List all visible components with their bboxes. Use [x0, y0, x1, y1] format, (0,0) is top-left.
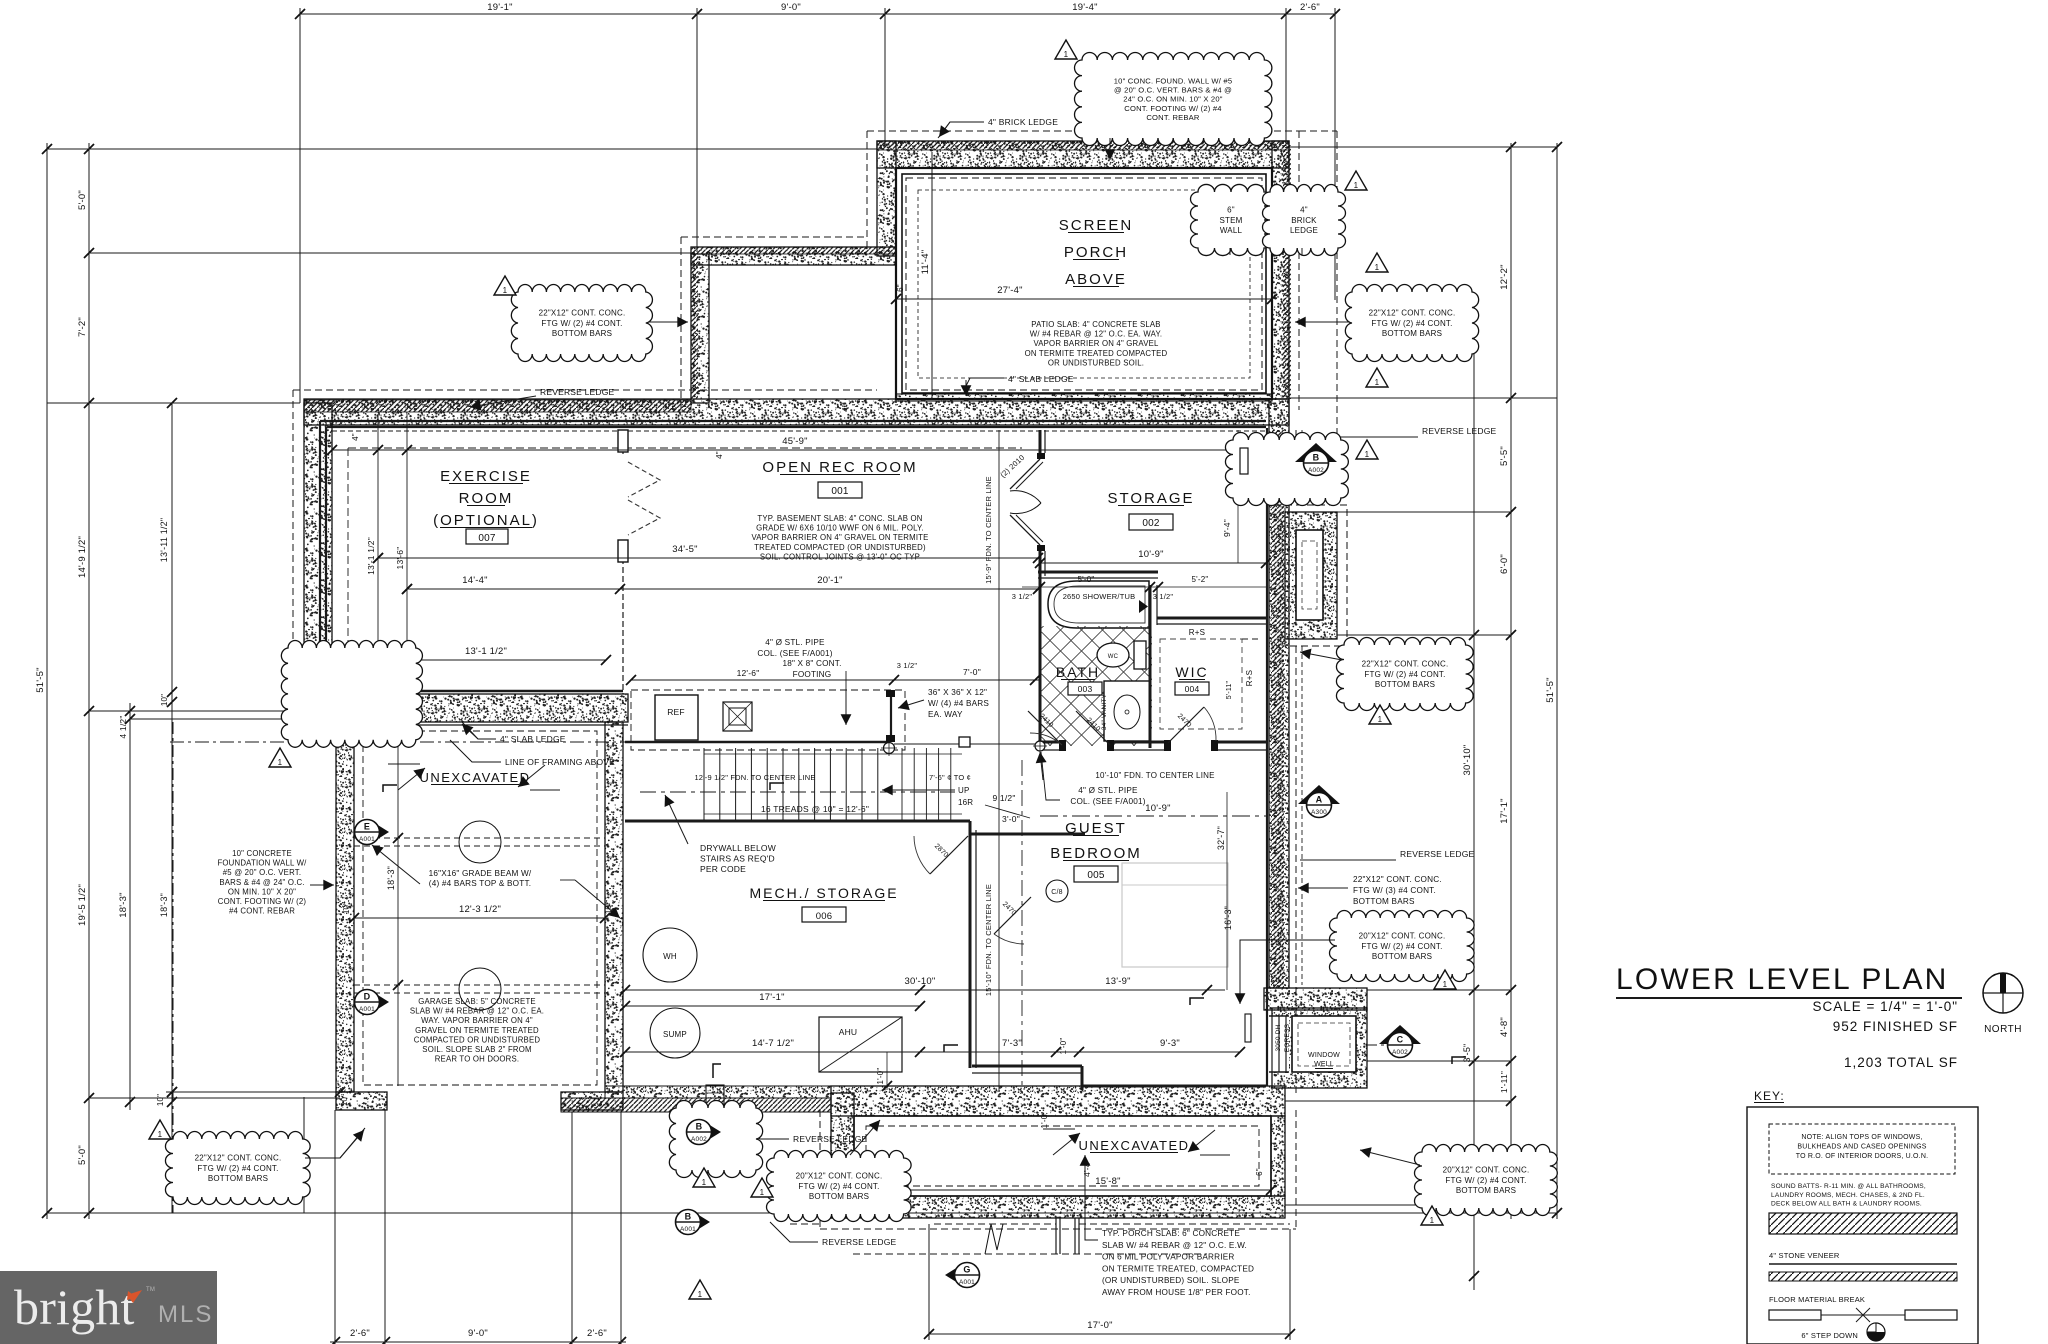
- svg-text:G: G: [963, 1265, 970, 1275]
- svg-text:14'-9 1/2": 14'-9 1/2": [77, 536, 88, 578]
- svg-text:AHU: AHU: [839, 1027, 858, 1037]
- svg-text:002: 002: [1142, 518, 1160, 529]
- svg-text:10" CONC. FOUND. WALL W/ #5: 10" CONC. FOUND. WALL W/ #5: [1114, 76, 1233, 85]
- svg-text:REVERSE LEDGE: REVERSE LEDGE: [1400, 849, 1475, 859]
- cloud 4 brick ledge: [1263, 185, 1346, 256]
- bump footing dashed: [819, 1110, 821, 1229]
- svg-text:34" VANITY: 34" VANITY: [1101, 693, 1108, 730]
- left inner dim column: [88, 143, 90, 1219]
- cloud 20x12 right lower: [1330, 911, 1475, 982]
- svg-text:16R: 16R: [958, 798, 973, 807]
- svg-text:19'-5 1/2": 19'-5 1/2": [77, 884, 88, 926]
- marker G bottom: [945, 1262, 966, 1288]
- bath north wall: [1038, 571, 1158, 574]
- svg-text:13'-11 1/2": 13'-11 1/2": [159, 518, 169, 562]
- svg-text:A300: A300: [1311, 809, 1327, 816]
- cloud 6 stem wall: [1191, 184, 1272, 255]
- svg-text:R+S: R+S: [1189, 628, 1205, 637]
- svg-text:20"X12" CONT. CONC.: 20"X12" CONT. CONC.: [1443, 1166, 1530, 1175]
- svg-text:4" Ø STL. PIPE: 4" Ø STL. PIPE: [765, 638, 825, 647]
- porch 27-4 dim: [896, 298, 1272, 300]
- left dim col x172: [171, 403, 173, 1213]
- north arrow: [1983, 973, 2023, 1013]
- svg-text:2650 SHOWER/TUB: 2650 SHOWER/TUB: [1063, 592, 1136, 601]
- svg-text:10": 10": [604, 902, 613, 914]
- bath wic south wall: [1038, 741, 1062, 744]
- svg-text:REVERSE LEDGE: REVERSE LEDGE: [1422, 426, 1497, 436]
- svg-text:BOTTOM BARS: BOTTOM BARS: [809, 1192, 869, 1201]
- svg-text:GARAGE SLAB: 5" CONCRETE: GARAGE SLAB: 5" CONCRETE: [418, 997, 536, 1006]
- svg-text:22"X12" CONT. CONC.: 22"X12" CONT. CONC.: [195, 1154, 282, 1163]
- svg-text:A: A: [1316, 795, 1323, 805]
- cloud B marker bottom: [669, 1101, 762, 1178]
- svg-text:SCALE = 1/4" = 1'-0": SCALE = 1/4" = 1'-0": [1813, 999, 1958, 1014]
- svg-text:10": 10": [156, 1094, 165, 1106]
- screen porch west segment wall: [691, 254, 709, 403]
- svg-text:4" SLAB LEDGE: 4" SLAB LEDGE: [500, 734, 566, 744]
- svg-text:4": 4": [351, 433, 360, 441]
- southeast corner band: [1264, 988, 1367, 1010]
- svg-text:4" STONE VENEER: 4" STONE VENEER: [1769, 1251, 1840, 1260]
- egress window marks: [1245, 1014, 1251, 1042]
- svg-text:B: B: [696, 1122, 703, 1132]
- svg-text:6": 6": [1255, 1168, 1264, 1176]
- marker D garage: [368, 989, 389, 1015]
- svg-text:4" Ø STL. PIPE: 4" Ø STL. PIPE: [1078, 786, 1138, 795]
- wic closet dashed: [1160, 639, 1242, 729]
- svg-text:9'-0": 9'-0": [468, 1328, 488, 1339]
- svg-text:7'-3": 7'-3": [1002, 1038, 1022, 1049]
- svg-text:LINE OF FRAMING ABOVE: LINE OF FRAMING ABOVE: [505, 757, 615, 767]
- svg-text:9 1/2": 9 1/2": [992, 793, 1015, 803]
- svg-text:12'-9 1/2" FDN. TO CENTER LINE: 12'-9 1/2" FDN. TO CENTER LINE: [694, 773, 815, 782]
- screen porch east wall: [1272, 141, 1289, 399]
- svg-text:12'-2": 12'-2": [1499, 264, 1510, 289]
- vanity: [1104, 681, 1150, 741]
- porch slab ledge strip: [896, 394, 1272, 401]
- bottom dim line: [330, 1341, 626, 1343]
- svg-text:ON 6 MIL POLY VAPOR BARRIER: ON 6 MIL POLY VAPOR BARRIER: [1102, 1253, 1235, 1262]
- svg-text:7'-2": 7'-2": [77, 317, 88, 337]
- svg-text:TO R.O. OF INTERIOR DOORS, U.O: TO R.O. OF INTERIOR DOORS, U.O.N.: [1796, 1153, 1928, 1160]
- svg-text:16'-3": 16'-3": [1223, 906, 1233, 930]
- svg-text:22"X12" CONT. CONC.: 22"X12" CONT. CONC.: [1362, 660, 1449, 669]
- svg-text:LAUNDRY ROOMS, MECH. CHASES, &: LAUNDRY ROOMS, MECH. CHASES, & 2ND FL.: [1771, 1192, 1925, 1199]
- svg-text:6": 6": [896, 284, 905, 292]
- svg-text:LOWER LEVEL PLAN: LOWER LEVEL PLAN: [1616, 963, 1949, 996]
- svg-text:1: 1: [1365, 450, 1370, 459]
- stair treads: [703, 748, 705, 820]
- svg-text:UNEXCAVATED: UNEXCAVATED: [1078, 1138, 1189, 1153]
- svg-text:FTG W/ (3) #4 CONT.: FTG W/ (3) #4 CONT.: [1353, 886, 1436, 895]
- svg-text:WINDOW: WINDOW: [1308, 1052, 1340, 1059]
- garage west wall foot: [336, 1092, 387, 1110]
- exercise-rec opening dashed wall: [622, 430, 624, 455]
- main top wall inner line: [320, 420, 1266, 422]
- svg-text:MECH./ STORAGE: MECH./ STORAGE: [749, 885, 898, 901]
- svg-text:3'-5": 3'-5": [1462, 1044, 1472, 1063]
- rec room 14-4 and 20-1 dims: [407, 588, 1038, 590]
- svg-text:EXERCISE: EXERCISE: [440, 468, 532, 485]
- svg-text:BOTTOM BARS: BOTTOM BARS: [1382, 329, 1442, 338]
- svg-text:FTG W/ (2) #4 CONT.: FTG W/ (2) #4 CONT.: [197, 1164, 278, 1173]
- screen porch inner face: [896, 168, 1272, 399]
- cloud 22x12 right mid: [1336, 638, 1473, 711]
- svg-text:FOOTING: FOOTING: [793, 670, 832, 679]
- wc: [1097, 643, 1129, 667]
- svg-text:BEDROOM: BEDROOM: [1050, 845, 1142, 862]
- stair newel rect: [959, 737, 970, 747]
- svg-text:5'-0": 5'-0": [1078, 575, 1095, 584]
- svg-text:12'-6": 12'-6": [737, 668, 760, 678]
- mech south reverse ledge band: [605, 1086, 831, 1098]
- svg-text:17'-0": 17'-0": [1087, 1320, 1112, 1331]
- guest bedroom west wall: [969, 830, 972, 1068]
- svg-text:4" SLAB LEDGE: 4" SLAB LEDGE: [1008, 374, 1074, 384]
- bath doors: [1028, 711, 1062, 745]
- bump 15-8 dim: [854, 1189, 1271, 1191]
- svg-text:32'-7": 32'-7": [1216, 826, 1226, 850]
- svg-text:004: 004: [1185, 684, 1200, 694]
- svg-text:SCREEN: SCREEN: [1059, 217, 1134, 234]
- bump west wall: [831, 1093, 854, 1218]
- bedroom south wall step: [972, 1065, 1082, 1068]
- svg-text:C: C: [1397, 1035, 1404, 1045]
- svg-text:34'-5": 34'-5": [672, 544, 697, 555]
- svg-text:20"X12" CONT. CONC.: 20"X12" CONT. CONC.: [1359, 932, 1446, 941]
- svg-text:UNEXCAVATED: UNEXCAVATED: [419, 770, 530, 785]
- svg-text:4": 4": [715, 451, 724, 459]
- svg-text:FTG W/ (2) #4 CONT.: FTG W/ (2) #4 CONT.: [1445, 1176, 1526, 1185]
- svg-text:3 1/2": 3 1/2": [1012, 592, 1033, 601]
- svg-text:4": 4": [841, 404, 850, 412]
- stair 12-6 dim: [631, 679, 1040, 681]
- svg-text:WC: WC: [1108, 654, 1119, 660]
- svg-text:STEM: STEM: [1219, 216, 1242, 225]
- column footing square: [723, 702, 752, 731]
- svg-text:COL. (SEE F/A001): COL. (SEE F/A001): [1070, 797, 1145, 806]
- left outer dim 51-5: [46, 143, 48, 1219]
- bath dims: [1022, 586, 1266, 588]
- guest bed dims: [1040, 815, 1266, 817]
- main west wall footing dashed: [292, 390, 294, 700]
- marker B bottom porch: [689, 1209, 710, 1235]
- svg-text:16 TREADS @ 10" = 12'-6": 16 TREADS @ 10" = 12'-6": [761, 804, 869, 814]
- svg-text:WALL: WALL: [1220, 226, 1243, 235]
- svg-text:BOTTOM BARS: BOTTOM BARS: [552, 329, 612, 338]
- svg-text:14'-7 1/2": 14'-7 1/2": [752, 1038, 794, 1049]
- right extension horizontals: [1289, 146, 1557, 148]
- svg-text:PORCH: PORCH: [1064, 244, 1128, 261]
- east reverse ledge dashed: [1295, 430, 1297, 505]
- svg-text:6": 6": [1227, 206, 1235, 215]
- svg-text:E: E: [364, 822, 370, 832]
- svg-text:SOUND BATTS- R-11 MIN. @ ALL B: SOUND BATTS- R-11 MIN. @ ALL BATHROOMS,: [1771, 1183, 1926, 1190]
- svg-text:MLS: MLS: [158, 1301, 213, 1328]
- svg-text:4 1/2": 4 1/2": [118, 715, 128, 738]
- garage 18-3 vert dim: [397, 742, 399, 1086]
- mech framing dashed: [631, 690, 905, 750]
- garage east wall foot: [561, 1092, 623, 1110]
- svg-text:FLOOR MATERIAL BREAK: FLOOR MATERIAL BREAK: [1769, 1295, 1865, 1304]
- rec room slab ledge dashed: [348, 447, 1022, 449]
- svg-text:001: 001: [831, 486, 849, 497]
- marker E garage: [368, 819, 389, 845]
- svg-text:GUEST: GUEST: [1065, 820, 1127, 837]
- bath wic wall: [1149, 585, 1152, 748]
- marker A east: [1298, 785, 1340, 804]
- ahu box: [819, 1017, 902, 1072]
- svg-text:3'-0": 3'-0": [1002, 814, 1020, 824]
- svg-text:9'-4": 9'-4": [1222, 519, 1232, 537]
- svg-text:EA. WAY: EA. WAY: [928, 710, 963, 719]
- svg-text:SOIL. SLOPE SLAB 2" FROM: SOIL. SLOPE SLAB 2" FROM: [422, 1045, 531, 1054]
- bump east wall: [1271, 1116, 1285, 1196]
- svg-text:5'-0": 5'-0": [77, 1145, 88, 1165]
- pipe columns: [884, 743, 895, 754]
- ref box: [655, 695, 698, 740]
- window well egress window: [1269, 1016, 1289, 1072]
- svg-text:19'-4": 19'-4": [1072, 2, 1097, 13]
- svg-text:KEY:: KEY:: [1754, 1089, 1785, 1103]
- svg-text:REAR TO OH DOORS.: REAR TO OH DOORS.: [435, 1055, 520, 1064]
- svg-text:WAY. VAPOR BARRIER ON 4": WAY. VAPOR BARRIER ON 4": [421, 1016, 533, 1025]
- svg-text:FTG W/ (2) #4 CONT.: FTG W/ (2) #4 CONT.: [1361, 942, 1442, 951]
- svg-text:952 FINISHED SF: 952 FINISHED SF: [1833, 1019, 1958, 1034]
- svg-text:SOIL. CONTROL JOINTS @ 13'-0": SOIL. CONTROL JOINTS @ 13'-0" OC TYP: [760, 552, 920, 561]
- svg-text:20'-1": 20'-1": [817, 575, 842, 586]
- svg-text:VAPOR BARRIER ON 4" GRAVEL: VAPOR BARRIER ON 4" GRAVEL: [1033, 339, 1159, 348]
- svg-text:20"X12" CONT. CONC.: 20"X12" CONT. CONC.: [796, 1172, 883, 1181]
- svg-text:REVERSE LEDGE: REVERSE LEDGE: [540, 387, 615, 397]
- svg-text:REF: REF: [667, 707, 685, 717]
- svg-text:STORAGE: STORAGE: [1107, 490, 1194, 507]
- bump south band: [831, 1196, 1285, 1218]
- svg-text:D: D: [364, 992, 371, 1002]
- svg-text:#5 @ 20" O.C. VERT.: #5 @ 20" O.C. VERT.: [223, 868, 301, 877]
- svg-text:1'-0": 1'-0": [1040, 1112, 1049, 1129]
- svg-text:COMPACTED OR UNDISTURBED: COMPACTED OR UNDISTURBED: [414, 1035, 541, 1044]
- svg-text:15'-9" FDN. TO CENTER LINE: 15'-9" FDN. TO CENTER LINE: [984, 476, 993, 584]
- small plumbing marks: [770, 783, 784, 790]
- tub: [1048, 581, 1149, 628]
- top dimension line: [300, 13, 1335, 15]
- right dim col x1474: [1473, 292, 1475, 1290]
- svg-text:BOTTOM BARS: BOTTOM BARS: [1375, 680, 1435, 689]
- svg-text:1: 1: [1443, 980, 1448, 989]
- bedroom entry door 2870: [930, 836, 968, 874]
- svg-text:A002: A002: [1308, 467, 1324, 474]
- svg-text:ON TERMITE TREATED, COMPACTED: ON TERMITE TREATED, COMPACTED: [1102, 1264, 1254, 1273]
- top right brick ledge dashed: [1299, 130, 1337, 132]
- exercise vertical dims: [377, 414, 379, 722]
- stair jamb wall: [890, 692, 892, 740]
- svg-text:UP: UP: [958, 786, 970, 795]
- cloud 22x12 right of porch: [1345, 285, 1478, 362]
- svg-text:13'-1 1/2": 13'-1 1/2": [465, 646, 507, 657]
- svg-text:1: 1: [1064, 50, 1069, 59]
- svg-text:C/8: C/8: [1051, 889, 1063, 896]
- svg-text:1: 1: [158, 1130, 163, 1139]
- svg-text:007: 007: [478, 533, 496, 544]
- svg-text:TYP. BASEMENT SLAB: 4" CONC. S: TYP. BASEMENT SLAB: 4" CONC. SLAB ON: [757, 514, 922, 523]
- svg-text:13'-6": 13'-6": [395, 547, 405, 570]
- screen porch step wall: [691, 247, 896, 265]
- left garage tick line: [166, 1091, 350, 1093]
- top extension lines: [299, 8, 301, 403]
- svg-text:1: 1: [278, 758, 283, 767]
- svg-text:3 1/2": 3 1/2": [1153, 592, 1174, 601]
- key sound batts bar: [1769, 1213, 1957, 1234]
- svg-text:3050 DH: 3050 DH: [1275, 1024, 1282, 1051]
- svg-text:A002: A002: [691, 1136, 707, 1143]
- svg-text:W/ #4 REBAR @ 12" O.C. EA. WAY: W/ #4 REBAR @ 12" O.C. EA. WAY.: [1030, 330, 1162, 339]
- east wall: [1269, 399, 1289, 988]
- svg-text:10'-10" FDN. TO CENTER LINE: 10'-10" FDN. TO CENTER LINE: [1095, 771, 1214, 780]
- svg-text:A001: A001: [359, 1006, 375, 1013]
- wic door: [1168, 707, 1204, 743]
- svg-text:51'-5": 51'-5": [35, 667, 46, 692]
- svg-text:OPEN REC ROOM: OPEN REC ROOM: [762, 459, 917, 476]
- svg-text:16"X16" GRADE BEAM W/: 16"X16" GRADE BEAM W/: [429, 869, 532, 878]
- svg-text:DRYWALL BELOW: DRYWALL BELOW: [700, 843, 776, 853]
- svg-text:6" STEP DOWN: 6" STEP DOWN: [1801, 1331, 1858, 1340]
- svg-text:PATIO SLAB: 4" CONCRETE SLAB: PATIO SLAB: 4" CONCRETE SLAB: [1031, 320, 1160, 329]
- svg-text:FTG W/ (2) #4 CONT.: FTG W/ (2) #4 CONT.: [1371, 319, 1452, 328]
- left extension horizontals: [47, 148, 877, 150]
- svg-text:(4) #4 BARS TOP & BOTT.: (4) #4 BARS TOP & BOTT.: [429, 879, 531, 888]
- svg-text:1: 1: [760, 1188, 765, 1197]
- exercise room bottom wall: [304, 694, 628, 722]
- porch footing dashed outline: [867, 130, 1299, 132]
- svg-text:1: 1: [698, 1290, 703, 1299]
- svg-text:FTG W/ (2) #4 CONT.: FTG W/ (2) #4 CONT.: [1364, 670, 1445, 679]
- svg-text:BOTTOM BARS: BOTTOM BARS: [1456, 1186, 1516, 1195]
- svg-text:10": 10": [342, 902, 351, 914]
- svg-text:TM: TM: [146, 1287, 155, 1293]
- garage interior dashed: [363, 731, 597, 1085]
- svg-text:11'-4": 11'-4": [920, 250, 931, 275]
- svg-text:13'-9": 13'-9": [1105, 976, 1130, 987]
- storage west wall: [1039, 430, 1042, 453]
- svg-text:19'-1": 19'-1": [487, 2, 512, 13]
- cloud 22x12 left bottom: [165, 1132, 310, 1205]
- svg-text:B: B: [1313, 453, 1320, 463]
- svg-text:1: 1: [1430, 1216, 1435, 1225]
- svg-text:12'-3 1/2": 12'-3 1/2": [459, 904, 501, 915]
- svg-text:1: 1: [503, 286, 508, 295]
- cloud 20x12 bottom right: [1415, 1145, 1558, 1216]
- svg-text:24" O.C. ON MIN. 10" X 20": 24" O.C. ON MIN. 10" X 20": [1123, 95, 1222, 104]
- garage east wall: [605, 722, 623, 1092]
- svg-text:4": 4": [1252, 404, 1261, 412]
- key box: [1747, 1107, 1978, 1344]
- svg-text:(OPTIONAL): (OPTIONAL): [433, 512, 539, 529]
- svg-text:BULKHEADS AND CASED OPENINGS: BULKHEADS AND CASED OPENINGS: [1797, 1144, 1926, 1151]
- svg-text:4" BRICK LEDGE: 4" BRICK LEDGE: [988, 117, 1058, 127]
- svg-text:1'-0": 1'-0": [876, 1068, 885, 1085]
- svg-text:4'-4": 4'-4": [1082, 1159, 1092, 1177]
- svg-text:TYP. PORCH SLAB: 6" CONCRETE: TYP. PORCH SLAB: 6" CONCRETE: [1102, 1229, 1240, 1238]
- svg-text:BRICK: BRICK: [1291, 216, 1317, 225]
- svg-text:AWAY FROM HOUSE 1/8" PER FOOT.: AWAY FROM HOUSE 1/8" PER FOOT.: [1102, 1288, 1251, 1297]
- svg-text:7'-0": 7'-0": [963, 667, 981, 677]
- bottom 17-0 dim: [929, 1333, 1290, 1335]
- mech dims 30-10: [625, 989, 1225, 991]
- svg-text:10" CONCRETE: 10" CONCRETE: [232, 849, 292, 858]
- svg-text:5'-5": 5'-5": [1499, 446, 1510, 466]
- svg-text:A002: A002: [1392, 1049, 1408, 1056]
- svg-text:1: 1: [702, 1178, 707, 1187]
- rec room 45-9 dim: [332, 449, 1266, 451]
- svg-text:BOTTOM BARS: BOTTOM BARS: [1372, 952, 1432, 961]
- svg-text:VAPOR BARRIER ON 4" GRAVEL ON: VAPOR BARRIER ON 4" GRAVEL ON TERMITE: [751, 533, 928, 542]
- svg-text:18" X 8" CONT.: 18" X 8" CONT.: [782, 659, 841, 668]
- svg-text:7'-6" ¢ TO ¢: 7'-6" ¢ TO ¢: [929, 773, 971, 782]
- svg-text:REVERSE LEDGE: REVERSE LEDGE: [822, 1237, 897, 1247]
- bed outline: [1122, 863, 1228, 967]
- bedroom door: [994, 897, 1031, 934]
- svg-text:B: B: [685, 1212, 692, 1222]
- svg-text:ON MIN. 10" X 20": ON MIN. 10" X 20": [228, 887, 296, 896]
- empty revision cloud left wall: [281, 640, 422, 747]
- svg-text:2'-6": 2'-6": [350, 1328, 370, 1339]
- svg-text:COL. (SEE F/A001): COL. (SEE F/A001): [757, 649, 832, 658]
- svg-text:18'-3": 18'-3": [386, 866, 396, 890]
- bright MLS logo: [0, 1271, 217, 1344]
- svg-text:6'-0": 6'-0": [1499, 554, 1510, 574]
- svg-text:22"X12" CONT. CONC.: 22"X12" CONT. CONC.: [1353, 875, 1442, 884]
- svg-text:17'-1": 17'-1": [1499, 798, 1510, 823]
- svg-text:bright: bright: [14, 1279, 135, 1335]
- svg-text:14'-4": 14'-4": [462, 575, 487, 586]
- left dim col x130: [129, 703, 131, 1110]
- svg-text:OR UNDISTURBED SOIL.: OR UNDISTURBED SOIL.: [1048, 358, 1144, 367]
- fireplace bump: [1285, 512, 1337, 639]
- svg-text:TREATED COMPACTED (OR UNDISTUR: TREATED COMPACTED (OR UNDISTURBED): [754, 543, 926, 552]
- svg-text:1'-11": 1'-11": [1499, 1071, 1509, 1093]
- svg-text:30'-10": 30'-10": [905, 976, 936, 987]
- svg-text:1'-0": 1'-0": [1059, 1038, 1068, 1055]
- stair rails: [704, 753, 962, 755]
- svg-text:BOTTOM BARS: BOTTOM BARS: [208, 1174, 268, 1183]
- svg-text:45'-9": 45'-9": [782, 436, 807, 447]
- svg-text:13'-1 1/2": 13'-1 1/2": [366, 537, 376, 575]
- svg-text:W/ (4) #4 BARS: W/ (4) #4 BARS: [928, 699, 989, 708]
- svg-text:STAIRS AS REQ'D: STAIRS AS REQ'D: [700, 854, 775, 864]
- porch interior dashed rects: [906, 178, 1262, 390]
- stair bottom wall: [625, 820, 970, 823]
- bath tile floor: [1041, 626, 1152, 746]
- svg-text:(OR UNDISTURBED) SOIL. SLOPE: (OR UNDISTURBED) SOIL. SLOPE: [1102, 1276, 1240, 1285]
- grade beam dashed lines: [354, 837, 605, 839]
- stair top wall: [625, 741, 888, 744]
- svg-text:SLAB W/ #4 REBAR @ 12" O.C. EA: SLAB W/ #4 REBAR @ 12" O.C. EA.: [410, 1007, 544, 1016]
- svg-text:30'-10": 30'-10": [1462, 745, 1473, 776]
- svg-text:REVERSE LEDGE: REVERSE LEDGE: [793, 1134, 868, 1144]
- exercise 13-1 dim: [332, 659, 606, 661]
- svg-text:10": 10": [160, 694, 169, 706]
- svg-text:SLAB W/ #4 REBAR @ 12" O.C. E.: SLAB W/ #4 REBAR @ 12" O.C. E.W.: [1102, 1241, 1247, 1250]
- storage double door: [1010, 459, 1040, 489]
- svg-text:FTG W/ (2) #4 CONT.: FTG W/ (2) #4 CONT.: [541, 319, 622, 328]
- svg-text:A001: A001: [680, 1226, 696, 1233]
- main west wall: [304, 403, 332, 694]
- window well ring: [1272, 1008, 1367, 1088]
- svg-text:EGRESS: EGRESS: [1284, 1023, 1291, 1052]
- svg-text:15'-8": 15'-8": [1095, 1176, 1120, 1187]
- svg-text:18'-3": 18'-3": [118, 892, 129, 917]
